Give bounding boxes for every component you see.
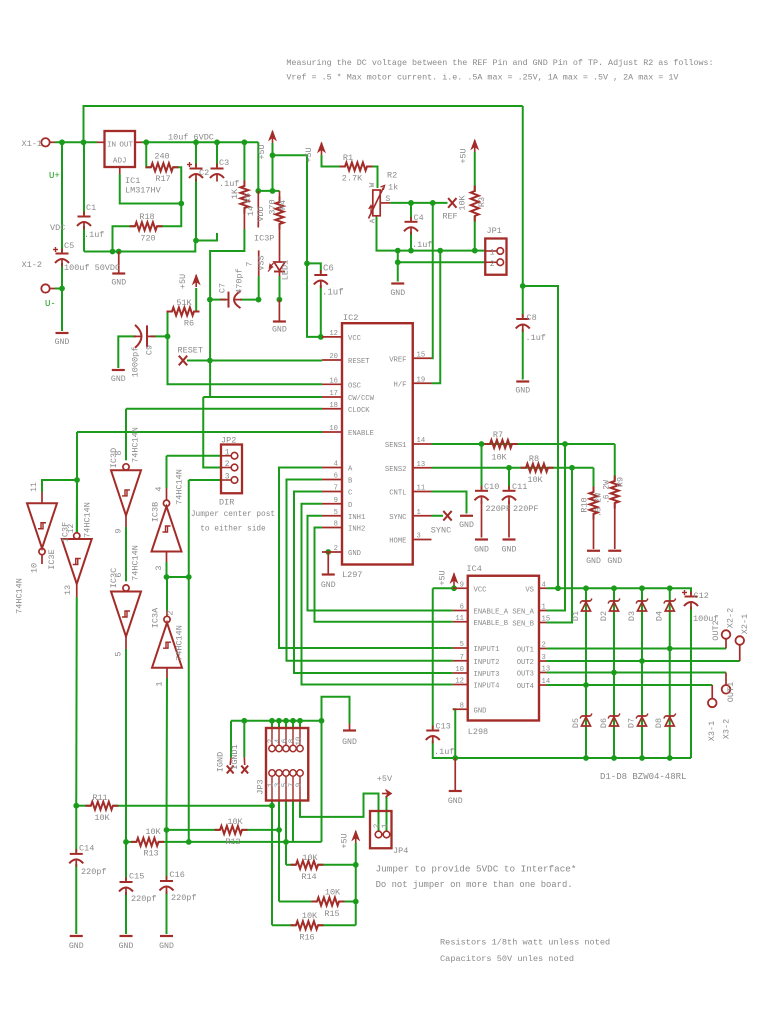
svg-text:R12: R12 xyxy=(225,837,240,847)
svg-text:10K: 10K xyxy=(458,194,468,210)
svg-text:IC3D: IC3D xyxy=(109,448,119,468)
svg-text:220pf: 220pf xyxy=(131,894,157,904)
svg-text:IGND1: IGND1 xyxy=(230,744,240,770)
svg-text:L298: L298 xyxy=(468,727,488,737)
svg-text:R8: R8 xyxy=(529,454,539,464)
svg-text:720: 720 xyxy=(140,234,155,244)
svg-text:1k: 1k xyxy=(388,183,398,193)
svg-text:10K: 10K xyxy=(227,817,243,827)
svg-text:R17: R17 xyxy=(155,174,170,184)
svg-text:X2-1: X2-1 xyxy=(740,614,750,634)
svg-text:INPUT3: INPUT3 xyxy=(474,671,500,679)
svg-text:+5U: +5U xyxy=(304,147,314,162)
svg-text:OUT1: OUT1 xyxy=(726,682,736,702)
svg-text:5: 5 xyxy=(334,509,338,517)
svg-text:.1uf: .1uf xyxy=(526,333,546,343)
svg-text:C3: C3 xyxy=(219,158,229,168)
svg-text:W: W xyxy=(369,182,377,187)
svg-text:VSS: VSS xyxy=(257,255,267,270)
svg-text:D1: D1 xyxy=(571,611,581,621)
svg-text:INPUT2: INPUT2 xyxy=(474,659,500,667)
svg-text:JP1: JP1 xyxy=(487,226,502,236)
svg-text:370: 370 xyxy=(268,199,278,214)
svg-text:VDD: VDD xyxy=(256,206,266,221)
svg-text:GND: GND xyxy=(272,326,287,335)
svg-text:OUT4: OUT4 xyxy=(517,683,534,691)
svg-text:9: 9 xyxy=(114,528,124,533)
svg-text:.6 2W: .6 2W xyxy=(595,493,604,517)
svg-text:10K: 10K xyxy=(325,888,341,898)
svg-text:CNTL: CNTL xyxy=(389,490,406,498)
svg-text:2: 2 xyxy=(374,824,382,829)
svg-text:R18: R18 xyxy=(139,212,154,222)
svg-text:7: 7 xyxy=(334,485,338,493)
svg-text:16: 16 xyxy=(329,377,338,385)
svg-text:10: 10 xyxy=(296,736,304,746)
svg-text:VCC: VCC xyxy=(348,335,362,343)
svg-text:10K: 10K xyxy=(491,453,507,463)
svg-text:GND: GND xyxy=(55,338,70,347)
svg-text:+5V: +5V xyxy=(377,774,393,784)
svg-text:GND: GND xyxy=(111,375,126,384)
svg-text:C12: C12 xyxy=(694,591,709,601)
svg-text:R9: R9 xyxy=(616,477,626,487)
svg-text:Vref = .5 * Max motor current.: Vref = .5 * Max motor current. i.e. .5A … xyxy=(286,73,678,83)
svg-text:6: 6 xyxy=(334,473,338,481)
svg-text:1K: 1K xyxy=(230,188,240,199)
svg-text:C2: C2 xyxy=(199,168,209,178)
svg-text:B: B xyxy=(348,478,353,486)
svg-text:10: 10 xyxy=(455,666,464,674)
svg-text:U-: U- xyxy=(45,299,56,309)
svg-text:.1uf: .1uf xyxy=(84,230,104,240)
svg-text:18: 18 xyxy=(329,402,338,410)
svg-text:C6: C6 xyxy=(323,264,334,274)
svg-text:INPUT4: INPUT4 xyxy=(474,683,500,691)
svg-text:SENS2: SENS2 xyxy=(385,466,407,474)
svg-text:D1-D8 BZW04-48RL: D1-D8 BZW04-48RL xyxy=(600,772,686,782)
svg-text:HOME: HOME xyxy=(389,538,406,546)
svg-text:240: 240 xyxy=(154,152,169,162)
svg-text:19: 19 xyxy=(417,376,426,384)
svg-text:74HC14N: 74HC14N xyxy=(83,502,93,538)
svg-text:GND: GND xyxy=(459,521,474,530)
svg-text:IC3B: IC3B xyxy=(151,502,161,522)
svg-text:Resistors 1/8th watt unless no: Resistors 1/8th watt unless noted xyxy=(440,938,610,948)
svg-text:X2-2: X2-2 xyxy=(726,608,736,628)
svg-text:A: A xyxy=(370,218,378,223)
svg-text:C14: C14 xyxy=(79,844,94,854)
svg-text:LED1: LED1 xyxy=(281,260,291,280)
svg-text:.1uf: .1uf xyxy=(412,240,432,250)
svg-text:1: 1 xyxy=(490,249,495,258)
svg-text:D3: D3 xyxy=(627,611,637,621)
svg-text:IGND: IGND xyxy=(216,752,226,772)
svg-text:R5: R5 xyxy=(243,193,253,203)
svg-text:10K: 10K xyxy=(94,813,110,823)
svg-text:.6 2W: .6 2W xyxy=(603,480,612,504)
svg-text:LM317HV: LM317HV xyxy=(125,186,162,196)
svg-text:C9: C9 xyxy=(145,345,155,355)
svg-text:IC3E: IC3E xyxy=(47,549,57,569)
svg-text:GND: GND xyxy=(342,738,357,747)
svg-text:ENABLE_B: ENABLE_B xyxy=(474,620,509,628)
svg-text:9: 9 xyxy=(460,581,464,589)
svg-text:C1: C1 xyxy=(86,203,96,213)
svg-text:2.7K: 2.7K xyxy=(342,174,363,184)
svg-text:VREF: VREF xyxy=(389,356,406,364)
svg-text:8: 8 xyxy=(334,521,338,529)
svg-text:10: 10 xyxy=(329,425,338,433)
svg-text:C11: C11 xyxy=(512,482,527,492)
svg-text:A: A xyxy=(348,466,353,474)
svg-text:+5U: +5U xyxy=(438,570,448,585)
svg-text:100uf 50VDC: 100uf 50VDC xyxy=(64,263,120,273)
svg-text:2: 2 xyxy=(225,460,230,469)
svg-text:GND: GND xyxy=(321,581,336,590)
svg-text:GND: GND xyxy=(474,707,487,715)
svg-text:10K: 10K xyxy=(527,475,543,485)
svg-text:OUT2: OUT2 xyxy=(517,659,534,667)
svg-text:4: 4 xyxy=(334,461,338,469)
svg-text:R6: R6 xyxy=(184,319,194,329)
svg-text:JP3: JP3 xyxy=(256,779,266,794)
svg-text:S: S xyxy=(386,195,391,204)
svg-text:1: 1 xyxy=(225,448,230,457)
svg-text:.1uf: .1uf xyxy=(219,179,239,189)
svg-text:11: 11 xyxy=(30,482,39,492)
svg-text:VCC: VCC xyxy=(474,586,488,594)
svg-text:DIR: DIR xyxy=(219,498,234,508)
svg-text:13: 13 xyxy=(63,585,73,595)
svg-text:Jumper center post: Jumper center post xyxy=(191,511,275,519)
svg-text:12: 12 xyxy=(329,330,338,338)
svg-text:2: 2 xyxy=(490,260,495,269)
svg-text:10K: 10K xyxy=(302,853,318,863)
svg-text:C4: C4 xyxy=(414,213,424,223)
svg-text:13: 13 xyxy=(417,461,426,469)
svg-text:IC2: IC2 xyxy=(343,313,358,323)
svg-text:14: 14 xyxy=(542,678,551,686)
svg-text:to either side: to either side xyxy=(200,526,266,534)
svg-text:+5U: +5U xyxy=(340,833,350,848)
svg-text:OUT1: OUT1 xyxy=(517,647,534,655)
svg-text:11: 11 xyxy=(455,615,464,623)
svg-text:13: 13 xyxy=(542,666,551,674)
svg-text:GND: GND xyxy=(586,557,601,566)
svg-text:X1-1: X1-1 xyxy=(22,139,42,149)
svg-text:Measuring the DC voltage betwe: Measuring the DC voltage between the REF… xyxy=(286,58,713,68)
svg-text:INPUT1: INPUT1 xyxy=(474,646,500,654)
svg-text:JP4: JP4 xyxy=(393,846,408,856)
svg-text:ENABLE_A: ENABLE_A xyxy=(474,609,509,617)
svg-text:10K: 10K xyxy=(302,911,318,921)
svg-text:RESET: RESET xyxy=(178,346,204,356)
svg-text:X1-2: X1-2 xyxy=(22,260,42,270)
svg-text:74HC14N: 74HC14N xyxy=(131,545,141,581)
svg-text:220PF: 220PF xyxy=(486,504,512,514)
svg-text:D4: D4 xyxy=(655,611,665,621)
svg-text:R13: R13 xyxy=(143,849,158,859)
svg-text:GND: GND xyxy=(474,546,489,555)
svg-text:X3-1: X3-1 xyxy=(707,721,717,741)
svg-text:6: 6 xyxy=(460,604,464,612)
svg-text:1: 1 xyxy=(155,681,165,686)
svg-text:14: 14 xyxy=(417,437,426,445)
svg-text:+5U: +5U xyxy=(257,144,267,159)
svg-text:12: 12 xyxy=(455,678,464,686)
svg-text:220pf: 220pf xyxy=(171,893,197,903)
svg-text:2: 2 xyxy=(542,642,546,650)
svg-text:JP2: JP2 xyxy=(221,436,236,446)
svg-text:74HC14N: 74HC14N xyxy=(175,469,185,505)
svg-text:9: 9 xyxy=(296,783,304,788)
svg-text:OUT: OUT xyxy=(119,142,133,150)
svg-text:C8: C8 xyxy=(527,313,537,323)
svg-text:14: 14 xyxy=(246,206,256,216)
svg-text:470pf: 470pf xyxy=(235,268,245,294)
svg-text:SYNC: SYNC xyxy=(431,526,451,536)
svg-text:+5U: +5U xyxy=(459,148,469,163)
svg-text:R15: R15 xyxy=(324,909,339,919)
svg-text:VDC: VDC xyxy=(50,223,65,233)
svg-text:R1: R1 xyxy=(343,153,353,163)
svg-text:10uf 6VDC: 10uf 6VDC xyxy=(168,133,214,143)
svg-text:SENS1: SENS1 xyxy=(385,442,407,450)
svg-text:10K: 10K xyxy=(145,827,161,837)
svg-text:C15: C15 xyxy=(129,872,144,882)
svg-text:3: 3 xyxy=(542,654,546,662)
svg-text:IC3C: IC3C xyxy=(109,568,119,588)
svg-text:C10: C10 xyxy=(484,482,499,492)
svg-text:2: 2 xyxy=(166,610,176,615)
svg-text:ADJ: ADJ xyxy=(113,158,127,166)
svg-text:Capacitors 50V unles noted: Capacitors 50V unles noted xyxy=(440,954,574,964)
svg-text:4: 4 xyxy=(154,486,164,491)
svg-text:INH1: INH1 xyxy=(348,514,365,522)
svg-text:51K: 51K xyxy=(176,298,192,308)
svg-text:CW/CCW: CW/CCW xyxy=(348,395,375,403)
svg-text:SEN_A: SEN_A xyxy=(512,609,534,617)
svg-text:1: 1 xyxy=(542,604,546,612)
svg-text:GND: GND xyxy=(448,797,463,806)
svg-text:Do not jumper on more than one: Do not jumper on more than one board. xyxy=(376,880,573,890)
svg-text:H/F: H/F xyxy=(394,381,407,389)
svg-text:R16: R16 xyxy=(299,933,314,943)
svg-text:1: 1 xyxy=(382,823,390,828)
svg-text:7: 7 xyxy=(245,261,255,266)
svg-text:VS: VS xyxy=(525,586,534,594)
svg-text:1: 1 xyxy=(417,509,421,517)
svg-text:RESET: RESET xyxy=(348,358,370,366)
svg-text:GND: GND xyxy=(119,942,134,951)
svg-text:3: 3 xyxy=(154,565,164,570)
svg-text:OUT3: OUT3 xyxy=(517,671,534,679)
svg-text:D6: D6 xyxy=(599,718,609,728)
svg-text:D: D xyxy=(348,502,352,510)
svg-text:7: 7 xyxy=(460,654,464,662)
svg-text:+5U: +5U xyxy=(178,274,188,289)
svg-text:D2: D2 xyxy=(599,611,609,621)
svg-text:9: 9 xyxy=(334,497,338,505)
svg-text:C16: C16 xyxy=(170,870,185,880)
svg-text:D8: D8 xyxy=(654,718,664,728)
svg-text:74HC14N: 74HC14N xyxy=(15,578,25,614)
svg-text:D5: D5 xyxy=(571,718,581,728)
svg-text:R3: R3 xyxy=(477,197,487,207)
svg-text:17: 17 xyxy=(329,390,338,398)
svg-text:74HC14N: 74HC14N xyxy=(131,427,141,463)
svg-text:SYNC: SYNC xyxy=(389,514,407,522)
svg-text:IC4: IC4 xyxy=(467,564,482,574)
svg-text:ENABLE: ENABLE xyxy=(348,430,374,438)
svg-text:74HC14N: 74HC14N xyxy=(175,625,185,661)
svg-text:2: 2 xyxy=(334,545,338,553)
svg-text:C13: C13 xyxy=(436,722,451,732)
svg-text:IC3P: IC3P xyxy=(254,234,274,244)
svg-text:X3-2: X3-2 xyxy=(722,719,732,739)
svg-text:C: C xyxy=(348,490,353,498)
svg-text:5: 5 xyxy=(114,651,124,656)
svg-text:R7: R7 xyxy=(493,430,503,440)
svg-text:GND: GND xyxy=(607,557,622,566)
svg-text:L297: L297 xyxy=(342,570,362,580)
svg-text:SEN_B: SEN_B xyxy=(512,621,534,629)
svg-text:R10: R10 xyxy=(580,497,590,512)
svg-text:3: 3 xyxy=(225,473,230,482)
svg-text:C7: C7 xyxy=(218,283,228,293)
svg-text:IC1: IC1 xyxy=(125,176,140,186)
svg-text:15: 15 xyxy=(542,616,551,624)
svg-text:R11: R11 xyxy=(92,793,107,803)
svg-text:R14: R14 xyxy=(301,872,316,882)
svg-text:4: 4 xyxy=(542,581,546,589)
svg-text:GND: GND xyxy=(390,289,405,298)
svg-text:U+: U+ xyxy=(49,171,60,181)
svg-text:GND: GND xyxy=(502,546,517,555)
svg-text:20: 20 xyxy=(329,353,338,361)
svg-text:CLOCK: CLOCK xyxy=(348,407,370,415)
svg-text:8: 8 xyxy=(460,702,464,710)
svg-text:GND: GND xyxy=(159,942,174,951)
svg-text:R2: R2 xyxy=(387,171,397,181)
svg-text:D7: D7 xyxy=(627,718,637,728)
svg-text:.1uf: .1uf xyxy=(434,747,454,757)
svg-text:GND: GND xyxy=(348,550,361,558)
svg-text:REF: REF xyxy=(442,212,457,222)
svg-text:3: 3 xyxy=(417,533,421,541)
svg-text:INH2: INH2 xyxy=(348,526,365,534)
svg-text:220PF: 220PF xyxy=(513,504,539,514)
svg-text:10: 10 xyxy=(30,563,40,573)
svg-text:220pf: 220pf xyxy=(81,867,107,877)
svg-text:5: 5 xyxy=(460,641,464,649)
svg-text:OUT2: OUT2 xyxy=(711,620,721,640)
svg-text:R4: R4 xyxy=(278,200,288,210)
svg-text:11: 11 xyxy=(417,485,426,493)
svg-text:IC3A: IC3A xyxy=(151,607,161,628)
svg-text:1000pf: 1000pf xyxy=(131,347,141,378)
svg-text:IN: IN xyxy=(107,142,116,150)
svg-text:GND: GND xyxy=(69,942,84,951)
svg-text:Jumper to provide 5VDC to Inte: Jumper to provide 5VDC to Interface* xyxy=(376,864,577,875)
svg-text:GND: GND xyxy=(515,387,530,396)
svg-text:.1uf: .1uf xyxy=(322,288,344,298)
svg-text:15: 15 xyxy=(417,351,426,359)
svg-text:IC3F: IC3F xyxy=(61,522,71,542)
svg-text:GND: GND xyxy=(111,279,126,288)
svg-text:C5: C5 xyxy=(64,241,74,251)
svg-text:OSC: OSC xyxy=(348,382,362,390)
